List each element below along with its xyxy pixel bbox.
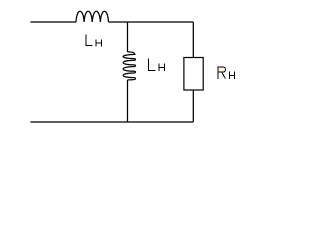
label L_H (shunt inductor): subscript H — [159, 63, 165, 71]
wire top-right lead to corner — [109, 21, 194, 23]
wire middle branch top stub — [127, 22, 129, 52]
wire bottom — [31, 121, 194, 123]
wire top-left lead — [31, 21, 77, 23]
wire right branch bottom — [192, 90, 194, 122]
inductor L2 (shunt, vertical 4 left hairpin loops with right hooks) — [123, 52, 135, 80]
label R_H: cream artifact inside R bowl — [219, 68, 225, 72]
label L_H (series inductor): subscript H — [96, 39, 102, 46]
resistor R_H (rectangle body) — [184, 58, 203, 91]
inductor L1 (series, horizontal 4 humps) — [76, 11, 109, 22]
label L_H (series inductor): letter L — [86, 34, 165, 71]
wire right branch top — [192, 22, 194, 58]
label R_H: subscript H — [230, 71, 235, 78]
label L_H (shunt inductor): letter L — [149, 58, 156, 70]
wire middle branch bottom stub — [127, 80, 129, 122]
label R_H: letter R — [218, 67, 225, 79]
